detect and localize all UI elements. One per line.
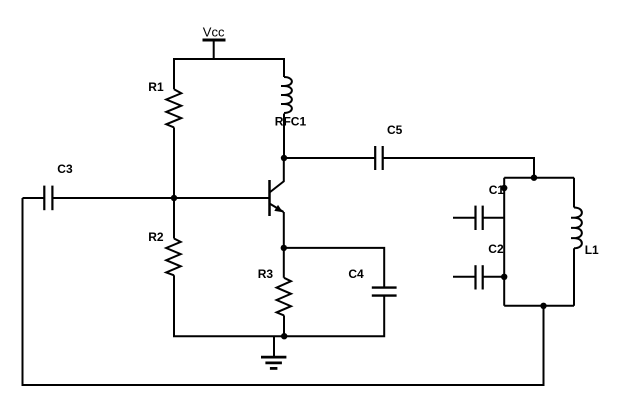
capacitor C2 xyxy=(476,265,483,289)
svg-text:C3: C3 xyxy=(57,162,73,176)
wire C3 to base node xyxy=(52,197,174,199)
wire tank right rail upper xyxy=(573,178,575,208)
inductor L1 xyxy=(571,208,582,249)
node tank bottom junction dot xyxy=(540,303,546,309)
wire emitter down xyxy=(283,212,285,248)
wire C2 left stub xyxy=(453,276,476,278)
resistor R3 xyxy=(277,278,291,316)
node C2 junction dot xyxy=(501,274,507,280)
resistor R2 xyxy=(166,239,181,276)
node tank top junction dot xyxy=(531,175,537,181)
resistor R1 xyxy=(166,89,181,127)
wire R2 bottom to bias rail xyxy=(174,275,384,336)
power symbol Vcc xyxy=(203,40,226,60)
svg-text:R2: R2 xyxy=(148,230,164,244)
svg-text:R3: R3 xyxy=(258,267,274,281)
wire C5 to tank xyxy=(383,158,534,178)
capacitor C1 xyxy=(476,206,483,230)
svg-text:L1: L1 xyxy=(585,243,599,257)
capacitor C5 xyxy=(375,146,383,170)
node bias rail junction dot xyxy=(281,333,287,339)
svg-text:C1: C1 xyxy=(489,183,505,197)
wire C1 left stub xyxy=(453,217,476,219)
wire top supply rail xyxy=(174,59,284,89)
wire RFC1 to collector node xyxy=(283,114,285,159)
transistor Q1 xyxy=(270,180,285,216)
svg-text:Vcc: Vcc xyxy=(203,24,225,39)
wire tank right rail lower xyxy=(573,248,575,305)
capacitor C4 xyxy=(372,288,397,296)
wire C3 left stub xyxy=(23,197,45,199)
wire tank bottom rail xyxy=(504,305,574,307)
svg-text:RFC1: RFC1 xyxy=(275,114,307,128)
wire tank left rail xyxy=(503,178,505,306)
wire C1 to left rail xyxy=(483,217,505,219)
svg-text:C4: C4 xyxy=(348,267,364,281)
node left rail upper dot xyxy=(501,185,507,191)
wire R1 bottom to base node xyxy=(173,127,175,198)
wire base xyxy=(174,197,270,199)
wire C2 to left rail xyxy=(483,276,505,278)
inductor RFC1 xyxy=(281,77,292,113)
wire emitter to C4 xyxy=(284,248,384,288)
svg-text:R1: R1 xyxy=(148,80,164,94)
wire tank top rail xyxy=(504,177,574,179)
wire emitter node to R3 xyxy=(283,248,285,278)
svg-text:C5: C5 xyxy=(387,123,403,137)
node base junction dot xyxy=(171,195,177,201)
wire feedback loop xyxy=(23,198,544,385)
wire collector node down to transistor xyxy=(283,158,285,182)
node collector junction dot xyxy=(281,155,287,161)
wire collector node to C5 xyxy=(284,157,375,159)
svg-text:C2: C2 xyxy=(488,242,504,256)
wire base node to R2 xyxy=(173,198,175,239)
wire R3 bottom to bias rail xyxy=(283,315,285,336)
node emitter junction dot xyxy=(281,245,287,251)
capacitor C3 xyxy=(44,186,52,211)
ground xyxy=(261,336,286,368)
